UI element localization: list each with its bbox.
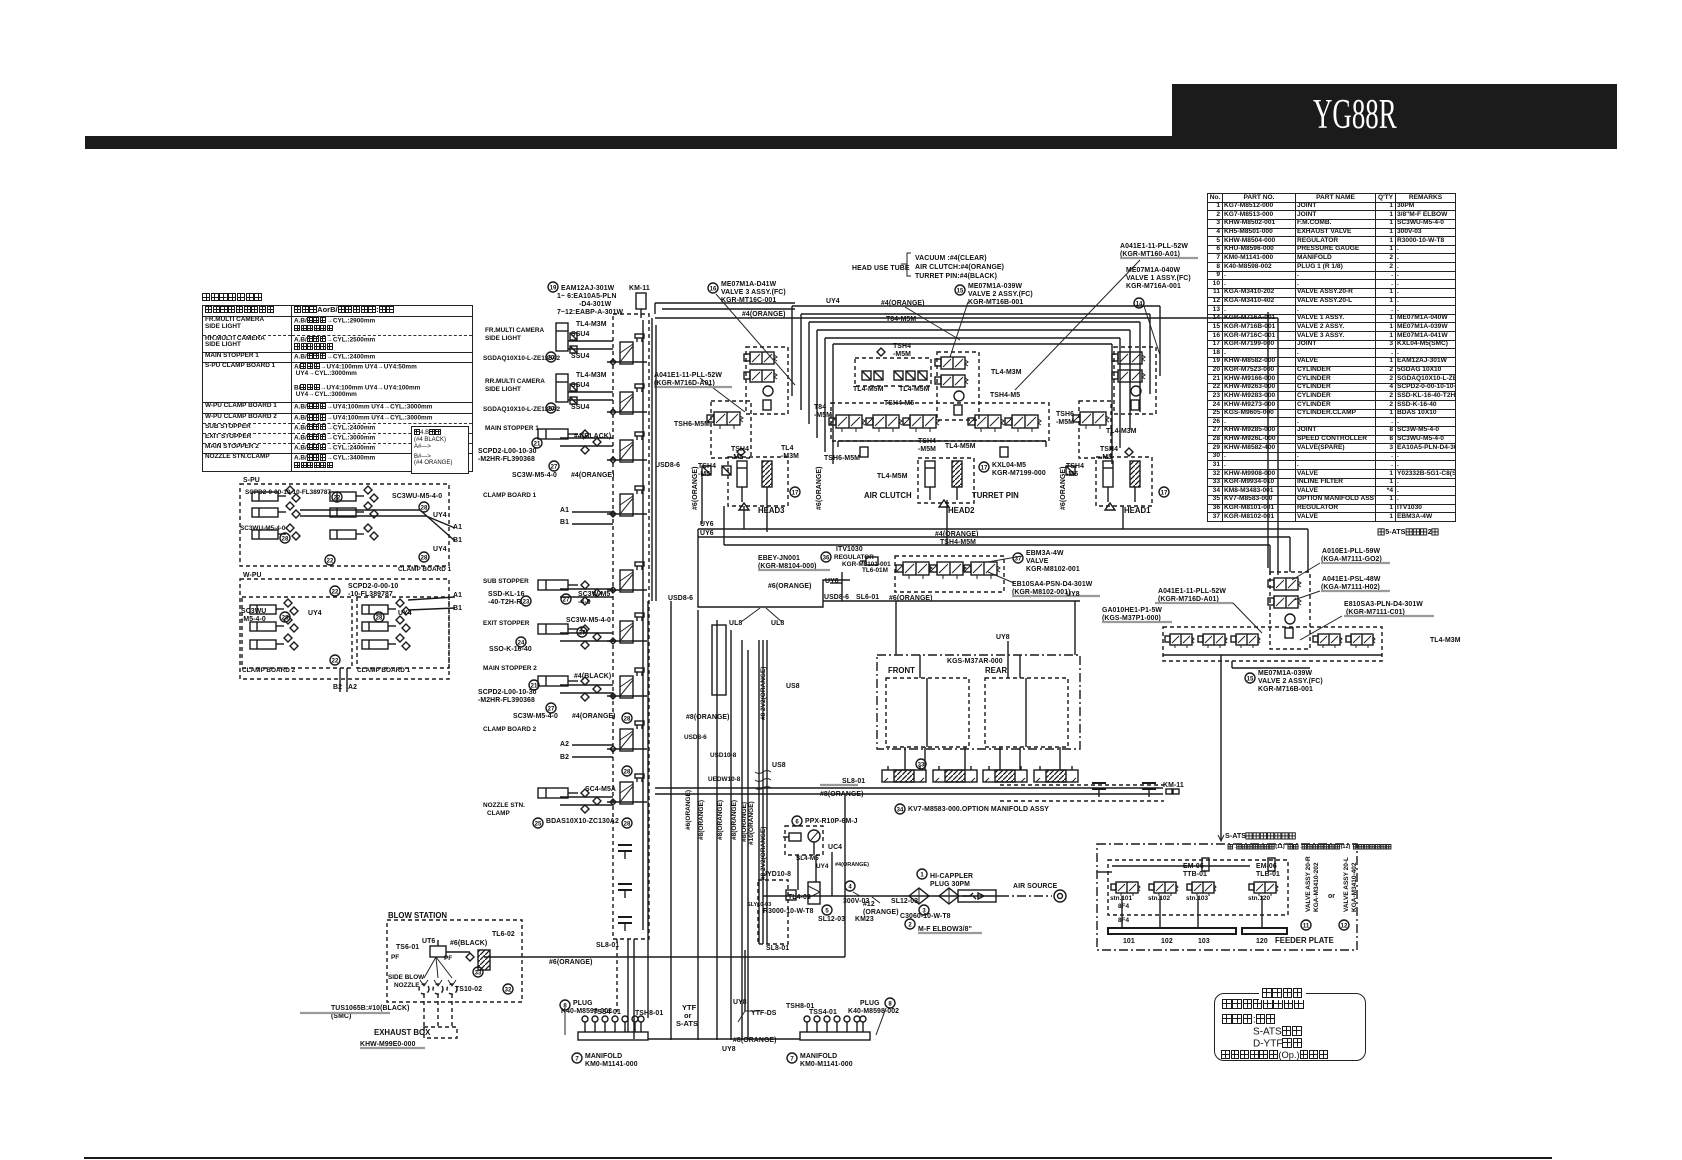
svg-text:7: 7 (575, 1056, 579, 1062)
svg-text:EAM12AJ-301W: EAM12AJ-301W (561, 285, 615, 292)
svg-text:stn.120: stn.120 (1248, 895, 1270, 902)
svg-text:28: 28 (376, 615, 383, 621)
svg-text:120: 120 (1256, 938, 1268, 945)
svg-text:15: 15 (957, 288, 964, 294)
svg-text:6: 6 (795, 819, 799, 825)
svg-text:EM-06: EM-06 (1183, 863, 1204, 870)
svg-text:ME07M1A-040W: ME07M1A-040W (1126, 267, 1180, 274)
svg-text:CLAMP BOARD 1: CLAMP BOARD 1 (357, 667, 411, 674)
svg-text:TSH4: TSH4 (918, 438, 936, 445)
svg-text:SL8-01: SL8-01 (596, 942, 619, 949)
svg-text:VALVE 2 ASSY.(FC): VALVE 2 ASSY.(FC) (968, 291, 1033, 298)
svg-text:#4(ORANGE): #4(ORANGE) (835, 862, 869, 868)
svg-text:UL8: UL8 (729, 620, 742, 627)
svg-text:B1: B1 (453, 537, 462, 544)
svg-text:#8 2V2(ORANGE): #8 2V2(ORANGE) (760, 667, 767, 720)
svg-text:MAIN STOPPER 1: MAIN STOPPER 1 (485, 425, 539, 432)
svg-text:#8(ORANGE): #8(ORANGE) (741, 802, 748, 842)
svg-text:-M5: -M5 (698, 471, 710, 478)
svg-text:103: 103 (1198, 938, 1210, 945)
svg-text:A010E1-PLL-59W: A010E1-PLL-59W (1322, 548, 1380, 555)
svg-text:20: 20 (548, 355, 555, 361)
svg-text:27: 27 (548, 706, 555, 712)
svg-text:102: 102 (1161, 938, 1173, 945)
svg-text:-10-FL389787: -10-FL389787 (348, 591, 393, 598)
svg-text:CLAMP BOARD 2: CLAMP BOARD 2 (483, 726, 537, 733)
svg-text:BDAS10X10-ZC130A2: BDAS10X10-ZC130A2 (546, 818, 619, 825)
svg-text:ME07M1A-039W: ME07M1A-039W (968, 283, 1022, 290)
svg-text:TSH4-M5: TSH4-M5 (884, 400, 914, 407)
svg-text:27: 27 (551, 464, 558, 470)
svg-text:17: 17 (1161, 490, 1168, 496)
svg-text:TLB-01: TLB-01 (1256, 871, 1280, 878)
svg-text:-M2HR-FL390368: -M2HR-FL390368 (478, 697, 535, 704)
svg-text:20: 20 (548, 406, 555, 412)
svg-text:TSH6-M5M: TSH6-M5M (674, 421, 710, 428)
svg-text:CLAMP BOARD 1: CLAMP BOARD 1 (398, 566, 452, 573)
svg-text:SC4-M5A: SC4-M5A (585, 786, 616, 793)
svg-text:SSD-KL-16: SSD-KL-16 (488, 591, 525, 598)
svg-text:EBM3A-4W: EBM3A-4W (1026, 550, 1064, 557)
svg-text:TSH4: TSH4 (698, 463, 716, 470)
svg-text:-M2HR-FL390368: -M2HR-FL390368 (478, 456, 535, 463)
svg-text:TL4-M3M: TL4-M3M (1430, 637, 1461, 644)
svg-text:REAR: REAR (985, 666, 1007, 675)
svg-text:ME07M1A-039W: ME07M1A-039W (1258, 670, 1312, 677)
svg-text:A041E1-11-PLL-52W: A041E1-11-PLL-52W (1120, 243, 1188, 250)
svg-text:TL4-M5M: TL4-M5M (877, 473, 908, 480)
svg-text:7~12:EABP-A-301W: 7~12:EABP-A-301W (557, 309, 624, 316)
svg-text:#8(ORANGE): #8(ORANGE) (731, 800, 738, 840)
svg-text:1~ 6:EA10A5-PLN: 1~ 6:EA10A5-PLN (557, 293, 617, 300)
svg-text:TSH6: TSH6 (1056, 411, 1074, 418)
svg-text:S-ATS: S-ATS (1225, 831, 1246, 840)
svg-text:FRONT: FRONT (888, 666, 915, 675)
svg-text:UT6: UT6 (422, 938, 435, 945)
svg-text:NOZZLE: NOZZLE (394, 982, 420, 989)
svg-text:TSS4-01: TSS4-01 (593, 1009, 621, 1016)
svg-text:VACUUM :#4(CLEAR): VACUUM :#4(CLEAR) (915, 255, 987, 262)
svg-text:KV7-M8583-000.OPTION MANIFOLD: KV7-M8583-000.OPTION MANIFOLD ASSY (908, 806, 1049, 813)
svg-text:#6(ORANGE): #6(ORANGE) (768, 583, 812, 590)
svg-text:34: 34 (897, 807, 904, 813)
svg-text:TSH4: TSH4 (1066, 463, 1084, 470)
svg-text:CLAMP: CLAMP (487, 810, 510, 817)
svg-text:FEEDER PLATE: FEEDER PLATE (1275, 936, 1334, 945)
svg-text:SC3W-M5-4-0: SC3W-M5-4-0 (513, 713, 558, 720)
svg-text:or: or (1328, 893, 1335, 900)
svg-text:USD8-6: USD8-6 (824, 594, 849, 601)
svg-text:KGR-M7199-000: KGR-M7199-000 (992, 470, 1046, 477)
svg-text:UY4: UY4 (816, 863, 829, 870)
svg-text:22: 22 (334, 495, 341, 501)
svg-text:28: 28 (624, 821, 631, 827)
svg-text:TL4-M3M: TL4-M3M (991, 369, 1022, 376)
svg-text:R3000-10-W-T8: R3000-10-W-T8 (763, 908, 814, 915)
svg-text:#4(ORANGE): #4(ORANGE) (571, 472, 615, 479)
svg-text:28: 28 (421, 505, 428, 511)
svg-text:VALVE: VALVE (1026, 558, 1049, 565)
svg-text:UY6: UY6 (825, 578, 839, 585)
svg-text:SC3W-M5-4-0: SC3W-M5-4-0 (512, 472, 557, 479)
svg-text:USD8-6: USD8-6 (684, 734, 707, 741)
svg-text:AIR CLUTCH:#4(ORANGE): AIR CLUTCH:#4(ORANGE) (915, 264, 1004, 271)
svg-text:SSU4: SSU4 (571, 404, 589, 411)
svg-text:KM23: KM23 (855, 916, 874, 923)
svg-text:#8(ORANGE): #8(ORANGE) (686, 714, 730, 721)
svg-text:AIR SOURCE: AIR SOURCE (1013, 883, 1058, 890)
svg-text:KGR-M716A-001: KGR-M716A-001 (1126, 283, 1181, 290)
svg-text:UL8: UL8 (771, 620, 784, 627)
svg-text:UY8: UY8 (996, 634, 1010, 641)
svg-text:#8(ORANGE): #8(ORANGE) (698, 800, 705, 840)
svg-text:SCPD2-0-00-10-10-FL389787: SCPD2-0-00-10-10-FL389787 (245, 489, 331, 496)
svg-text:11: 11 (1303, 923, 1310, 929)
svg-text:UY4: UY4 (826, 298, 840, 305)
svg-text:E810SA3-PLN-D4-301W: E810SA3-PLN-D4-301W (1344, 601, 1423, 608)
svg-text:-M5: -M5 (1100, 454, 1112, 461)
svg-text:2: 2 (908, 922, 912, 928)
svg-text:SIDE LIGHT: SIDE LIGHT (485, 335, 521, 342)
svg-text:#10(ORANGE): #10(ORANGE) (748, 801, 755, 845)
svg-text:16: 16 (710, 286, 717, 292)
svg-text:8: 8 (888, 1001, 892, 1007)
svg-text:TL4-M3M: TL4-M3M (576, 372, 607, 379)
svg-text:28: 28 (624, 769, 631, 775)
svg-text:TL6-01M: TL6-01M (862, 567, 888, 574)
svg-text:14: 14 (1136, 301, 1143, 307)
svg-text:7: 7 (790, 1056, 794, 1062)
svg-text:SC3WU-M5-4-0: SC3WU-M5-4-0 (392, 493, 442, 500)
svg-text:S-ATS: S-ATS (676, 1019, 698, 1028)
svg-text:TL4-M3M: TL4-M3M (1106, 428, 1137, 435)
svg-text:UY8: UY8 (722, 1046, 736, 1053)
svg-text:RR.MULTI CAMERA: RR.MULTI CAMERA (485, 378, 545, 385)
svg-text:#6(ORANGE): #6(ORANGE) (1060, 467, 1067, 511)
svg-text:#8(ORANGE): #8(ORANGE) (820, 791, 864, 798)
svg-text:B1: B1 (560, 519, 569, 526)
svg-text:#6(ORANGE): #6(ORANGE) (549, 959, 593, 966)
svg-text:VALVE 1 ASSY.(FC): VALVE 1 ASSY.(FC) (1126, 275, 1191, 282)
svg-text:GA010HE1-P1-5W: GA010HE1-P1-5W (1102, 607, 1162, 614)
svg-text:#8(ORANGE): #8(ORANGE) (717, 800, 724, 840)
svg-text:UY6: UY6 (700, 530, 714, 537)
svg-text:SCPD2-L00-10-30: SCPD2-L00-10-30 (478, 448, 537, 455)
svg-text:22: 22 (332, 658, 339, 664)
svg-text:HEAD2: HEAD2 (948, 506, 975, 515)
svg-text:TL4-M3M: TL4-M3M (576, 321, 607, 328)
svg-text:22: 22 (327, 558, 334, 564)
svg-text:stn.103: stn.103 (1186, 895, 1208, 902)
svg-text:SSU4: SSU4 (571, 331, 589, 338)
svg-text:CLAMP BOARD 1: CLAMP BOARD 1 (483, 492, 537, 499)
svg-text:UEDW10-8: UEDW10-8 (708, 776, 741, 783)
svg-text:USD10-8: USD10-8 (710, 752, 737, 759)
svg-text:SSU4: SSU4 (571, 353, 589, 360)
svg-text:ME07M1A-D41W: ME07M1A-D41W (721, 281, 777, 288)
svg-text:SL8-01: SL8-01 (766, 945, 789, 952)
svg-text:12: 12 (1341, 923, 1348, 929)
svg-text:KGR-MT16B-001: KGR-MT16B-001 (968, 299, 1023, 306)
svg-text:PLUG: PLUG (573, 1000, 593, 1007)
svg-text:TSS4-01: TSS4-01 (809, 1009, 837, 1016)
svg-text:PPX-R10P-6M-J: PPX-R10P-6M-J (805, 818, 858, 825)
svg-text:UC4: UC4 (828, 844, 842, 851)
svg-text:28: 28 (624, 716, 631, 722)
svg-text:(11): (11) (1275, 844, 1285, 850)
svg-text:A041E1-11-PLL-52W: A041E1-11-PLL-52W (1158, 588, 1226, 595)
svg-text:-M5: -M5 (1066, 471, 1078, 478)
svg-text:KGA-M3410-402: KGA-M3410-402 (1351, 862, 1358, 912)
svg-text:PLUG 30PM: PLUG 30PM (930, 881, 970, 888)
svg-text:TL4: TL4 (781, 445, 794, 452)
svg-text:UY4: UY4 (398, 610, 412, 617)
svg-text:-M5M: -M5M (1056, 419, 1074, 426)
svg-text:#12: #12 (863, 901, 875, 908)
svg-text:-M3M: -M3M (781, 453, 799, 460)
svg-text:REGULATOR: REGULATOR (834, 554, 874, 561)
svg-text:AIR CLUTCH: AIR CLUTCH (864, 491, 912, 500)
svg-text:PF: PF (444, 955, 452, 962)
svg-text:-40-T2H-R: -40-T2H-R (488, 599, 521, 606)
svg-text:TTB-01: TTB-01 (1183, 871, 1207, 878)
svg-text:HEAD3: HEAD3 (758, 506, 785, 515)
svg-text:-D4-301W: -D4-301W (579, 301, 612, 308)
svg-text:EXIT STOPPER: EXIT STOPPER (483, 620, 530, 627)
svg-text:SL12-03: SL12-03 (891, 898, 918, 905)
svg-text:KGS-M37AR-000: KGS-M37AR-000 (947, 658, 1003, 665)
svg-text:HEAD USE TUBE: HEAD USE TUBE (852, 265, 910, 272)
svg-text:TS10-02: TS10-02 (455, 986, 482, 993)
svg-text:SC3WU-M5-4-0: SC3WU-M5-4-0 (240, 525, 286, 532)
svg-text:TSH6-M5M: TSH6-M5M (824, 455, 860, 462)
svg-text:EB10SA4-PSN-D4-301W: EB10SA4-PSN-D4-301W (1012, 581, 1093, 588)
svg-text:SC3W-M5: SC3W-M5 (578, 591, 610, 598)
svg-text:2: 2 (1428, 527, 1432, 536)
svg-text:T84: T84 (814, 404, 826, 411)
svg-text:UY8: UY8 (1066, 591, 1080, 598)
svg-text:stn.102: stn.102 (1148, 895, 1170, 902)
svg-text:TSH8-01: TSH8-01 (635, 1010, 663, 1017)
svg-text:17: 17 (792, 490, 799, 496)
svg-text:US8: US8 (786, 683, 800, 690)
svg-text:TL4-M5M: TL4-M5M (853, 386, 884, 393)
svg-text:NOZZLE STN.: NOZZLE STN. (483, 802, 525, 809)
svg-text:#6(ORANGE): #6(ORANGE) (685, 790, 692, 830)
svg-text:#4(ORANGE): #4(ORANGE) (572, 713, 616, 720)
svg-text:ITV1030: ITV1030 (836, 546, 863, 553)
svg-text:#4(ORANGE): #4(ORANGE) (742, 311, 786, 318)
svg-text:TURRET PIN:#4(BLACK): TURRET PIN:#4(BLACK) (915, 273, 997, 280)
svg-text:(ORANGE): (ORANGE) (863, 909, 899, 916)
svg-text:25: 25 (535, 821, 542, 827)
svg-text:SC3WU: SC3WU (241, 608, 266, 615)
svg-text:SL6-01: SL6-01 (856, 594, 879, 601)
svg-text:SCPD2-L00-10-30: SCPD2-L00-10-30 (478, 689, 537, 696)
svg-text:KM-11: KM-11 (629, 285, 650, 292)
svg-text:19: 19 (550, 285, 557, 291)
svg-text:UY4: UY4 (433, 546, 447, 553)
svg-text:EM-06: EM-06 (1256, 863, 1277, 870)
svg-text:8F4: 8F4 (1118, 903, 1129, 910)
svg-text:BLOW STATION: BLOW STATION (388, 911, 447, 920)
svg-text:4: 4 (848, 884, 852, 890)
svg-text:TSH4: TSH4 (893, 343, 911, 350)
svg-text:5: 5 (825, 908, 829, 914)
svg-text:1: 1 (920, 872, 924, 878)
svg-text:#4(BLACK): #4(BLACK) (574, 673, 611, 680)
svg-text:KM0-M1141-000: KM0-M1141-000 (585, 1061, 638, 1068)
svg-text:-M5M: -M5M (814, 412, 832, 419)
svg-text:MANIFOLD: MANIFOLD (800, 1053, 837, 1060)
svg-text:A1: A1 (453, 592, 462, 599)
svg-text:#6(ORANGE): #6(ORANGE) (816, 467, 823, 511)
svg-text:S-PU: S-PU (243, 477, 260, 484)
svg-text:SSO-K-16-40: SSO-K-16-40 (489, 646, 532, 653)
svg-text:PLUG: PLUG (860, 1000, 880, 1007)
svg-text:#6(ORANGE): #6(ORANGE) (692, 467, 699, 511)
svg-text:21: 21 (534, 441, 541, 447)
svg-text:TUS1065B:#10(BLACK): TUS1065B:#10(BLACK) (331, 1005, 409, 1012)
svg-text:15: 15 (1247, 676, 1254, 682)
svg-text:28: 28 (421, 555, 428, 561)
svg-text:MAIN STOPPER 2: MAIN STOPPER 2 (483, 665, 537, 672)
svg-text:KM0-M1141-000: KM0-M1141-000 (800, 1061, 853, 1068)
svg-text:VALVE 2 ASSY.(FC): VALVE 2 ASSY.(FC) (1258, 678, 1323, 685)
svg-text:VALVE 3 ASSY.(FC): VALVE 3 ASSY.(FC) (721, 289, 786, 296)
svg-text:5-ATS: 5-ATS (1385, 527, 1405, 536)
svg-text:FR.MULTI CAMERA: FR.MULTI CAMERA (485, 327, 545, 334)
svg-text:UY4: UY4 (433, 512, 447, 519)
svg-text:SIDE LIGHT: SIDE LIGHT (485, 386, 521, 393)
svg-text:101: 101 (1123, 938, 1135, 945)
svg-text:A041E1-PSL-48W: A041E1-PSL-48W (1322, 576, 1381, 583)
svg-text:USD8-6: USD8-6 (655, 462, 680, 469)
svg-text:32: 32 (505, 987, 512, 993)
svg-text:17: 17 (981, 465, 988, 471)
svg-text:-M5: -M5 (731, 454, 743, 461)
svg-text:VALVE ASSY 20-R: VALVE ASSY 20-R (1305, 856, 1312, 912)
svg-text:TL4-M5M: TL4-M5M (945, 443, 976, 450)
svg-text:UYD10-8: UYD10-8 (762, 871, 791, 878)
svg-text:22: 22 (332, 589, 339, 595)
svg-text:TL6-02: TL6-02 (492, 931, 515, 938)
svg-text:W-PU: W-PU (243, 572, 262, 579)
svg-text:33: 33 (475, 970, 482, 976)
svg-text:KGR-M8102-001: KGR-M8102-001 (1026, 566, 1080, 573)
svg-text:-M5M: -M5M (918, 446, 936, 453)
svg-text:-M5M: -M5M (893, 351, 911, 358)
svg-text:#4(ORANGE): #4(ORANGE) (881, 300, 925, 307)
svg-text:(12): (12) (1341, 844, 1351, 850)
svg-text:A041E1-11-PLL-52W: A041E1-11-PLL-52W (654, 372, 722, 379)
svg-text:#6(BLACK): #6(BLACK) (450, 940, 487, 947)
svg-text:33: 33 (918, 762, 925, 768)
svg-text:UY4: UY4 (308, 610, 322, 617)
svg-text:HEAD1: HEAD1 (1124, 506, 1151, 515)
svg-text:EBEY-JN001: EBEY-JN001 (758, 555, 800, 562)
svg-text:-M5-4-0: -M5-4-0 (241, 616, 266, 623)
svg-text:27: 27 (579, 630, 586, 636)
svg-text:PF: PF (391, 954, 399, 961)
svg-text:SCPD2-0-00-10: SCPD2-0-00-10 (348, 583, 398, 590)
svg-text:27: 27 (563, 597, 570, 603)
svg-text:B2: B2 (560, 754, 569, 761)
svg-text:TSH4-M5: TSH4-M5 (990, 392, 1020, 399)
svg-text:US8: US8 (772, 762, 786, 769)
svg-text:A2: A2 (560, 741, 569, 748)
svg-text:SL4-M5: SL4-M5 (796, 855, 819, 862)
svg-text:A1: A1 (453, 524, 462, 531)
svg-text:KGA-M3410-202: KGA-M3410-202 (1313, 862, 1320, 912)
svg-text:SL12-03: SL12-03 (818, 916, 845, 923)
svg-text:EXHAUST BOX: EXHAUST BOX (374, 1028, 431, 1037)
svg-text:HI-CAPPLER: HI-CAPPLER (930, 873, 973, 880)
svg-text:TSH4: TSH4 (1100, 446, 1118, 453)
svg-text:#8(ORANGE): #8(ORANGE) (733, 1037, 777, 1044)
svg-text:VALVE ASSY 20-L: VALVE ASSY 20-L (1343, 857, 1350, 912)
svg-text:36: 36 (823, 555, 830, 561)
svg-text:T84-M5M: T84-M5M (886, 316, 916, 323)
svg-text:TL4-M5M: TL4-M5M (899, 386, 930, 393)
svg-text:-4-0: -4-0 (578, 599, 591, 606)
svg-text:TURRET PIN: TURRET PIN (972, 491, 1019, 500)
svg-text:KXL04-M5: KXL04-M5 (992, 462, 1026, 469)
svg-text:TL4-02: TL4-02 (788, 894, 811, 901)
svg-text:SIDE BLOW: SIDE BLOW (388, 974, 425, 981)
svg-text:B2: B2 (333, 684, 342, 691)
svg-text:MANIFOLD: MANIFOLD (585, 1053, 622, 1060)
svg-text:USD8-6: USD8-6 (668, 595, 693, 602)
svg-text:KGR-MT16C-001: KGR-MT16C-001 (721, 297, 776, 304)
svg-text:SC3W-M5-4-0: SC3W-M5-4-0 (566, 617, 611, 624)
svg-text:KGR-M716B-001: KGR-M716B-001 (1258, 686, 1313, 693)
svg-text:28: 28 (282, 536, 289, 542)
svg-text:28: 28 (282, 615, 289, 621)
svg-text:TS6-01: TS6-01 (396, 944, 419, 951)
svg-text:TSH4: TSH4 (731, 446, 749, 453)
svg-text:A2: A2 (348, 684, 357, 691)
svg-text:stn.101: stn.101 (1110, 895, 1132, 902)
svg-text:KM-11: KM-11 (1163, 782, 1184, 789)
svg-text:CLAMP BOARD 2: CLAMP BOARD 2 (242, 667, 296, 674)
svg-text:A1: A1 (560, 507, 569, 514)
svg-text:8F4: 8F4 (1118, 917, 1129, 924)
svg-text:23: 23 (523, 599, 530, 605)
svg-text:SUB STOPPER: SUB STOPPER (483, 578, 529, 585)
svg-text:SSU4: SSU4 (571, 382, 589, 389)
svg-text:#4(BLACK): #4(BLACK) (574, 433, 611, 440)
svg-text:K40-M8598-002: K40-M8598-002 (848, 1008, 899, 1015)
